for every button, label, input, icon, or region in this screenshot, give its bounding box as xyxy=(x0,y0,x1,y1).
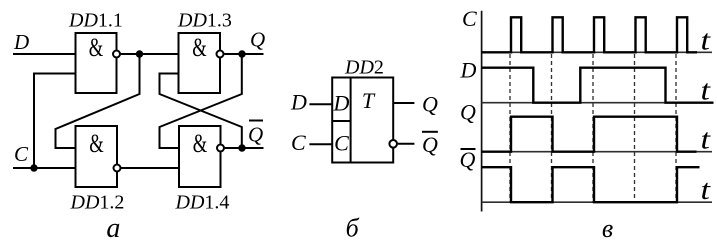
waveform Q xyxy=(482,117,697,152)
dashed clock edge line 3 xyxy=(592,54,594,202)
svg-text:Q: Q xyxy=(422,132,438,157)
svg-text:t: t xyxy=(701,175,712,206)
inversion bubble DD1.1 xyxy=(113,51,120,58)
svg-text:T: T xyxy=(362,88,376,113)
svg-text:D: D xyxy=(290,89,307,114)
wire C input xyxy=(13,167,76,169)
svg-text:Q: Q xyxy=(460,99,476,124)
svg-text:C: C xyxy=(334,131,349,156)
wire Qbar output xyxy=(225,147,264,149)
wire S feedback to DD1.2 xyxy=(56,54,140,148)
dashed clock edge line 1 xyxy=(509,54,511,202)
wire D input DD2 xyxy=(309,103,332,105)
node Qbar junction xyxy=(238,144,245,151)
output Qbar label xyxy=(248,121,263,147)
inversion bubble DD2 xyxy=(389,140,397,148)
svg-text:DD1.1: DD1.1 xyxy=(68,10,123,32)
svg-text:в: в xyxy=(602,214,613,243)
wire Qbar output DD2 xyxy=(398,143,415,145)
svg-text:t: t xyxy=(701,76,712,107)
svg-text:Q: Q xyxy=(460,147,476,172)
svg-text:C: C xyxy=(291,130,306,155)
svg-text:DD2: DD2 xyxy=(344,57,384,79)
svg-text:DD1.2: DD1.2 xyxy=(70,192,125,214)
svg-text:Q: Q xyxy=(250,28,265,52)
svg-text:t: t xyxy=(701,25,712,56)
output Qbar label DD2 xyxy=(422,132,438,157)
waveform D xyxy=(482,68,714,103)
svg-text:&: & xyxy=(89,129,104,158)
wire D input xyxy=(13,53,76,55)
wire Q output xyxy=(224,53,263,55)
svg-text:C: C xyxy=(462,6,477,31)
svg-text:C: C xyxy=(14,142,29,166)
svg-text:Q: Q xyxy=(422,92,438,117)
axis C baseline xyxy=(482,51,713,53)
wire DD1.1 out to DD1.3 in xyxy=(121,53,179,55)
svg-text:D: D xyxy=(460,57,477,82)
axis Q baseline xyxy=(482,151,713,153)
svg-text:&: & xyxy=(89,33,104,62)
waveform C xyxy=(482,17,698,52)
dashed clock edge line 4 xyxy=(634,54,636,202)
node S junction xyxy=(136,50,143,57)
svg-text:DD1.3: DD1.3 xyxy=(177,10,232,32)
svg-text:Q: Q xyxy=(248,123,263,147)
svg-text:б: б xyxy=(346,214,360,243)
wire C feedback to DD1.1 xyxy=(34,74,76,169)
wire DD1.2 out to DD1.4 in xyxy=(121,167,179,169)
svg-text:&: & xyxy=(193,129,208,158)
gate DD1.4 xyxy=(179,126,221,187)
axis D baseline xyxy=(482,102,713,104)
svg-text:t: t xyxy=(701,125,712,156)
flip-flop DD2 body xyxy=(332,78,393,163)
inversion bubble DD1.3 xyxy=(217,51,224,58)
wire Q output DD2 xyxy=(393,102,414,104)
svg-text:&: & xyxy=(192,33,207,62)
svg-text:а: а xyxy=(106,213,120,244)
svg-text:D: D xyxy=(333,91,350,116)
wire Q feedback to DD1.4 xyxy=(160,54,242,148)
inversion bubble DD1.2 xyxy=(114,165,121,172)
dashed clock edge line 2 xyxy=(551,54,553,202)
gate DD1.3 xyxy=(179,33,221,93)
waveform Qbar xyxy=(482,167,700,202)
signal label Qbar xyxy=(460,147,476,172)
inversion bubble DD1.4 xyxy=(217,145,224,152)
wire Qbar feedback to DD1.3 xyxy=(160,74,242,149)
svg-text:D: D xyxy=(13,30,29,54)
svg-text:DD1.4: DD1.4 xyxy=(175,192,230,214)
dashed clock edge line 5 xyxy=(675,54,677,202)
gate DD1.1 xyxy=(76,33,117,93)
node Q junction xyxy=(238,50,245,57)
wire C input DD2 xyxy=(309,143,332,145)
axis Qbar baseline xyxy=(482,201,713,203)
time axis vertical xyxy=(481,11,483,212)
node C junction xyxy=(30,164,37,171)
gate DD1.2 xyxy=(76,126,118,187)
